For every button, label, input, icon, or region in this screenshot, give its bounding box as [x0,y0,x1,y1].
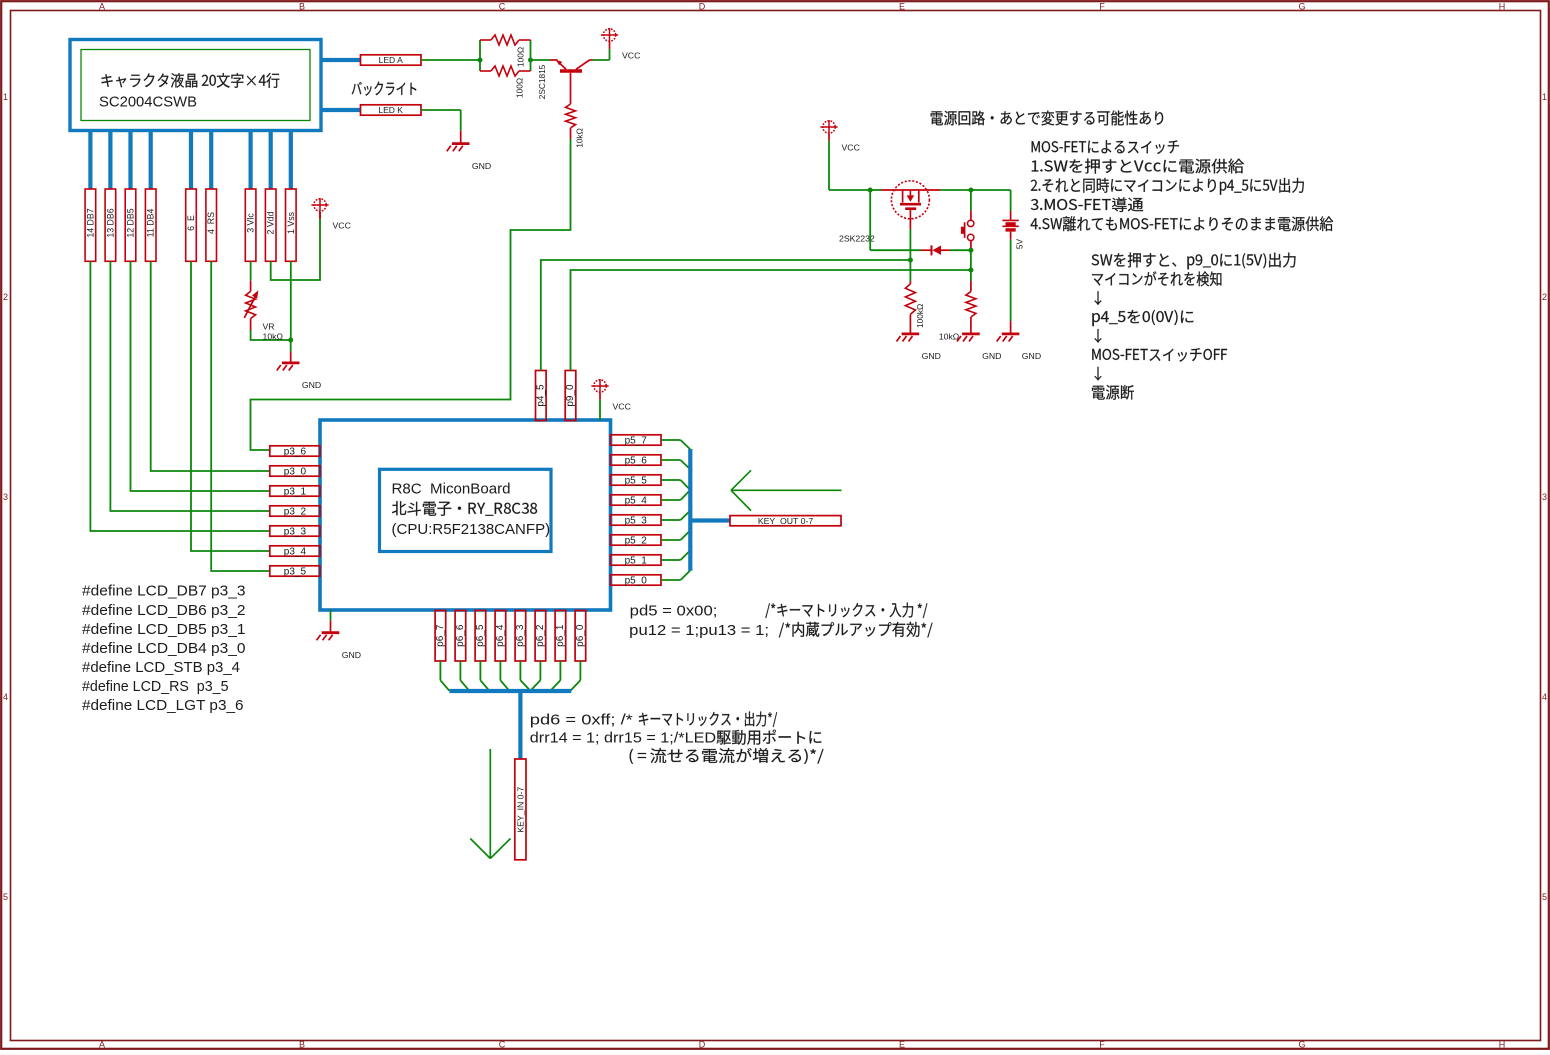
svg-text:B: B [299,1,305,11]
svg-text:p5_1: p5_1 [625,555,648,566]
svg-text:3: 3 [3,492,8,502]
svg-text:GND: GND [342,650,361,660]
svg-text:F: F [1099,1,1105,11]
svg-text:R8C MiconBoard: R8C MiconBoard [392,481,511,498]
svg-text:4 RS: 4 RS [206,212,216,234]
svg-text:E: E [899,1,905,11]
svg-text:p5_7: p5_7 [625,435,648,446]
svg-text:p3_5: p3_5 [284,566,307,577]
svg-text:p5_5: p5_5 [625,475,648,486]
svg-text:#define LCD_DB4 p3_0: #define LCD_DB4 p3_0 [82,640,246,657]
svg-text:C: C [499,1,506,11]
svg-text:6 E: 6 E [186,215,196,231]
svg-text:E: E [899,1040,905,1050]
svg-text:A: A [99,1,105,11]
svg-text:3: 3 [1542,492,1547,502]
svg-text:p3_4: p3_4 [284,546,307,557]
svg-text:G: G [1298,1,1305,11]
svg-text:VCC: VCC [842,143,860,153]
svg-text:p5_4: p5_4 [625,495,648,506]
svg-text:GND: GND [472,161,491,171]
svg-text:(CPU:R5F2138CANFP): (CPU:R5F2138CANFP) [392,521,551,538]
svg-text:#define LCD_LGT p3_6: #define LCD_LGT p3_6 [82,697,244,714]
svg-text:F: F [1099,1040,1105,1050]
svg-text:GND: GND [1022,351,1041,361]
svg-text:100Ω: 100Ω [516,47,526,67]
svg-text:100kΩ: 100kΩ [915,304,925,328]
svg-text:14 DB7: 14 DB7 [85,208,95,237]
svg-text:GND: GND [302,380,321,390]
svg-text:p5_2: p5_2 [625,535,648,546]
svg-text:#define LCD_RS p3_5: #define LCD_RS p3_5 [82,678,229,695]
svg-text:2 Vdd: 2 Vdd [266,211,276,234]
svg-text:pu12 = 1;pu13 = 1;: pu12 = 1;pu13 = 1; [629,622,769,639]
svg-text:10kΩ: 10kΩ [939,331,960,341]
svg-text:1 Vss: 1 Vss [286,211,296,234]
svg-text:p3_6: p3_6 [284,446,307,457]
svg-text:p6_1: p6_1 [555,624,566,647]
svg-text:p5_6: p5_6 [625,455,648,466]
svg-text:p6_3: p6_3 [515,624,526,647]
svg-text:10kΩ: 10kΩ [575,128,585,148]
svg-text:H: H [1499,1,1506,11]
svg-text:#define LCD_DB6 p3_2: #define LCD_DB6 p3_2 [82,602,246,619]
svg-text:G: G [1298,1040,1305,1050]
svg-text:p5_3: p5_3 [625,515,648,526]
svg-text:100Ω: 100Ω [515,78,525,98]
svg-text:C: C [499,1040,506,1050]
svg-text:p6_0: p6_0 [575,624,586,647]
svg-text:5: 5 [1542,892,1547,902]
svg-text:2SC1815: 2SC1815 [537,64,547,99]
svg-text:10kΩ: 10kΩ [263,332,284,342]
svg-text:#define LCD_DB7 p3_3: #define LCD_DB7 p3_3 [82,583,246,600]
svg-text:4: 4 [1542,692,1547,702]
svg-text:3 Vlc: 3 Vlc [246,213,256,233]
svg-text:11 DB4: 11 DB4 [146,209,156,238]
svg-text:p6_2: p6_2 [535,624,546,647]
svg-text:1: 1 [3,92,8,102]
svg-text:#define LCD_DB5 p3_1: #define LCD_DB5 p3_1 [82,621,246,638]
svg-text:VCC: VCC [613,402,631,412]
svg-text:p4_5: p4_5 [535,384,546,407]
svg-text:p3_2: p3_2 [284,506,307,517]
svg-text:LED A: LED A [379,55,403,65]
svg-text:KEY_OUT 0-7: KEY_OUT 0-7 [758,516,814,526]
svg-text:p5_0: p5_0 [625,575,648,586]
svg-text:5: 5 [3,892,8,902]
svg-text:p6_5: p6_5 [475,624,486,647]
svg-text:4: 4 [3,692,8,702]
svg-text:13 DB6: 13 DB6 [105,208,115,237]
svg-text:KEY_IN 0-7: KEY_IN 0-7 [515,787,525,833]
svg-text:1: 1 [1542,92,1547,102]
svg-text:5V: 5V [1015,238,1025,249]
svg-text:p3_0: p3_0 [284,466,307,477]
svg-text:pd6 = 0xff; /*: pd6 = 0xff; /* [530,711,633,728]
svg-text:LED K: LED K [378,105,403,115]
svg-text:p6_4: p6_4 [495,624,506,647]
svg-text:drr14 = 1; drr15 = 1;/*LED: drr14 = 1; drr15 = 1;/*LED [530,730,716,747]
svg-text:VCC: VCC [333,221,351,231]
svg-text:VR: VR [263,322,275,332]
svg-text:p3_1: p3_1 [284,486,307,497]
svg-text:GND: GND [982,351,1001,361]
svg-text:VCC: VCC [622,51,640,61]
svg-text:p9_0: p9_0 [565,384,576,407]
svg-text:pd5 = 0x00;: pd5 = 0x00; [630,602,718,619]
svg-text:p3_3: p3_3 [284,526,307,537]
svg-text:2: 2 [3,292,8,302]
svg-text:p6_7: p6_7 [435,624,446,647]
svg-text:H: H [1499,1040,1506,1050]
svg-text:D: D [699,1040,706,1050]
svg-text:B: B [299,1040,305,1050]
svg-text:2: 2 [1542,292,1547,302]
svg-text:D: D [699,1,706,11]
svg-text:A: A [99,1040,105,1050]
svg-text:#define LCD_STB p3_4: #define LCD_STB p3_4 [82,659,240,676]
svg-text:GND: GND [922,351,941,361]
svg-text:SC2004CSWB: SC2004CSWB [99,93,197,110]
svg-text:12 DB5: 12 DB5 [126,208,136,237]
svg-text:p6_6: p6_6 [455,624,466,647]
